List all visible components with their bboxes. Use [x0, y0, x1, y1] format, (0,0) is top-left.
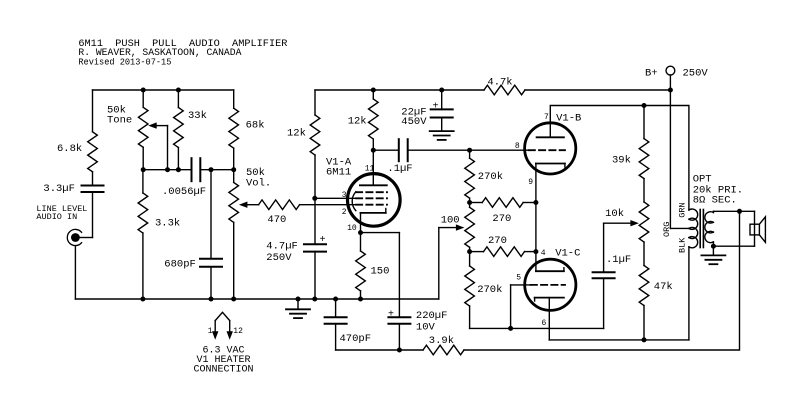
heater connection symbol [212, 312, 233, 340]
svg-text:AUDIO IN: AUDIO IN [36, 212, 77, 222]
wire bottom ground rail [75, 298, 438, 300]
resistor 39k [612, 106, 649, 203]
svg-text:270k: 270k [478, 171, 503, 183]
svg-text:100: 100 [441, 214, 460, 226]
svg-text:12k: 12k [348, 116, 367, 128]
tube V1-A plate [360, 150, 387, 185]
resistor 270k lower [465, 252, 503, 329]
wire B+ to OPT ORG tap [670, 90, 689, 228]
svg-text:470: 470 [267, 214, 286, 226]
potentiometer 50k Tone [107, 90, 148, 170]
svg-text:BLK: BLK [678, 237, 688, 253]
node b+ rail dots [371, 88, 673, 93]
tube V1-B plate [537, 136, 564, 138]
svg-text:39k: 39k [612, 155, 631, 167]
svg-text:B+: B+ [645, 68, 658, 80]
svg-text:470pF: 470pF [340, 333, 372, 345]
tube V1-C plate [536, 268, 564, 272]
wire cap to jack [80, 237, 93, 239]
connector J1 line level audio in [36, 204, 87, 246]
pin 3 label [342, 191, 347, 200]
resistor 270 upper [470, 198, 536, 226]
heater text [193, 346, 253, 376]
svg-text:.0056µF: .0056µF [162, 186, 206, 198]
node 270 lower junctions [467, 249, 538, 254]
svg-text:CONNECTION: CONNECTION [193, 364, 253, 375]
tube V1-C envelope [525, 247, 581, 310]
svg-text:47k: 47k [654, 281, 673, 293]
svg-text:4: 4 [541, 249, 546, 258]
svg-text:3.3µF: 3.3µF [43, 183, 75, 195]
wire feedback rail left [336, 349, 423, 351]
wire feedback rail right [464, 211, 740, 350]
wire top-right rail [315, 89, 670, 91]
wire secondary top [713, 210, 754, 212]
svg-text:12k: 12k [287, 128, 306, 140]
node speaker feedback junction [737, 209, 742, 214]
wire jack to ground rail [74, 246, 76, 299]
svg-text:6.8k: 6.8k [57, 143, 82, 155]
svg-text:2: 2 [342, 208, 347, 217]
tube V1-B envelope [525, 113, 582, 174]
svg-text:680pF: 680pF [164, 259, 196, 271]
svg-text:250V: 250V [266, 252, 292, 264]
wire V1-A pin3 lead [315, 197, 356, 199]
svg-text:Tone: Tone [107, 115, 132, 127]
resistor 68k [229, 90, 265, 170]
pin 8 label [515, 142, 520, 151]
ground symbol under secondary [701, 246, 725, 264]
svg-text:Revised 2013-07-15: Revised 2013-07-15 [78, 56, 171, 67]
svg-text:11: 11 [365, 164, 375, 173]
svg-text:270: 270 [488, 235, 507, 247]
title text block [78, 38, 287, 67]
svg-text:.1µF: .1µF [606, 254, 631, 266]
pin 12 label [233, 327, 243, 336]
pin 10 label [347, 224, 357, 233]
node mid rail junctions [141, 167, 237, 172]
svg-text:270k: 270k [477, 284, 502, 296]
node grid return junction [508, 326, 513, 331]
node pin10 junction [358, 230, 363, 235]
wire V1-C cathode rail [549, 298, 689, 340]
svg-text:1: 1 [208, 327, 213, 336]
svg-text:+: + [319, 235, 325, 246]
svg-text:V1-B: V1-B [556, 113, 581, 125]
node 12k grid junction [312, 196, 317, 201]
resistor 12k first [287, 90, 320, 244]
resistor 47k [639, 266, 673, 340]
wiper of 10k pot [604, 220, 639, 272]
resistor 470 [259, 200, 300, 226]
wire V1-B cathode to V1-C plate [535, 164, 537, 272]
node 47k bottom junction [642, 337, 647, 342]
capacitor 470pF [325, 299, 371, 350]
svg-text:10k: 10k [605, 208, 624, 220]
svg-text:220µF: 220µF [416, 310, 448, 322]
node ground rail dots [140, 297, 363, 302]
svg-text:150: 150 [371, 265, 390, 277]
svg-text:12: 12 [233, 327, 243, 336]
wire secondary bottom [713, 245, 754, 247]
svg-text:270: 270 [492, 213, 511, 225]
svg-text:7: 7 [544, 113, 549, 122]
capacitor .1uF coupling A-B [373, 139, 528, 175]
ground symbol under 22uF [430, 131, 454, 140]
pin 4 label [541, 249, 546, 258]
tube V1-B cathode [536, 164, 565, 168]
wire mid rail [143, 169, 234, 171]
wire 270k to .1uF bottom [470, 278, 604, 328]
resistor 270 lower [470, 235, 536, 256]
svg-text:.1µF: .1µF [387, 163, 412, 175]
node 270 upper junctions [467, 200, 538, 205]
svg-text:250V: 250V [683, 68, 709, 80]
transformer OPT core [700, 210, 703, 248]
svg-text:5: 5 [516, 274, 521, 283]
terminal B+ 250V [645, 66, 708, 90]
speaker LS1 [750, 211, 765, 246]
wire top-left rail [93, 89, 234, 91]
potentiometer 100 [441, 203, 475, 252]
svg-text:3.3k: 3.3k [155, 218, 180, 230]
capacitor 680pF [164, 170, 222, 299]
pin 6 label [541, 319, 546, 328]
pin 7 label [544, 113, 549, 122]
svg-text:68k: 68k [246, 119, 265, 131]
wire 470 to V1-A pin2 [300, 204, 356, 206]
resistor 33k [174, 90, 207, 170]
pin 2 label [342, 208, 347, 217]
capacitor .1uF feedback [593, 254, 632, 278]
transformer labels [662, 173, 743, 253]
wire V1-B plate line [550, 106, 689, 211]
svg-text:+: + [388, 309, 394, 320]
capacitor 3.3uF [43, 183, 103, 238]
ground symbol left [286, 299, 310, 318]
svg-text:10V: 10V [416, 322, 436, 334]
resistor 150 [356, 233, 390, 299]
pin 5 label [516, 274, 521, 283]
resistor 270k upper [465, 150, 503, 202]
pin 9 label [528, 178, 533, 187]
potentiometer 10k [605, 202, 649, 266]
svg-text:3.9k: 3.9k [429, 335, 454, 347]
tube V1-A 6M11 pentode envelope [326, 156, 400, 226]
capacitor .0056uF [162, 158, 206, 198]
svg-text:+: + [432, 102, 438, 113]
svg-text:6M11: 6M11 [326, 167, 351, 179]
svg-text:8Ω SEC.: 8Ω SEC. [693, 194, 737, 206]
resistor 4.7k [484, 76, 525, 94]
tube V1-C cathode [535, 298, 564, 301]
wiper of vol pot [239, 202, 259, 208]
svg-text:ORG: ORG [662, 222, 672, 237]
node coupling-grid junction [467, 148, 472, 153]
svg-text:450V: 450V [401, 116, 427, 128]
wiper of tone pot [148, 122, 167, 169]
capacitor 4.7uF 250V [266, 235, 326, 299]
node rail-tone junction [141, 88, 181, 93]
svg-text:6: 6 [541, 319, 546, 328]
pin 11 label [365, 164, 375, 173]
wire pin10 to 220uF [361, 233, 400, 318]
node plate line 39k junction [642, 103, 647, 108]
svg-text:10: 10 [347, 224, 357, 233]
resistor 12k second [348, 90, 378, 150]
resistor 3.9k [423, 335, 464, 355]
svg-text:V1-C: V1-C [555, 247, 580, 259]
wire V1-C grid lead [511, 285, 531, 329]
svg-text:4.7µF: 4.7µF [266, 240, 298, 252]
tube V1-B grid [529, 149, 565, 151]
tube V1-C grid [531, 284, 565, 286]
svg-text:4.7k: 4.7k [487, 76, 512, 88]
svg-text:33k: 33k [188, 110, 207, 122]
svg-text:Vol.: Vol. [246, 178, 271, 190]
resistor 3.3k [138, 170, 180, 299]
node 220uF bottom junction [397, 348, 402, 353]
capacitor 220uF 10V [388, 309, 447, 350]
resistor 6.8k [57, 90, 97, 186]
node secondary ground junction [711, 244, 716, 249]
svg-text:8: 8 [515, 142, 520, 151]
capacitor 22uF 450V [401, 90, 452, 131]
tube V1-A grids [352, 192, 387, 211]
pin 1 label [208, 327, 213, 336]
svg-text:3: 3 [342, 191, 347, 200]
svg-text:9: 9 [528, 178, 533, 187]
tube V1-A cathode [361, 209, 386, 233]
wiper of 100 pot [439, 224, 465, 299]
node pin11 junction [371, 148, 376, 153]
transformer OPT secondary [705, 211, 714, 246]
potentiometer 50k Vol [229, 167, 271, 299]
svg-text:GRN: GRN [678, 202, 688, 217]
transformer OPT primary [689, 209, 698, 340]
